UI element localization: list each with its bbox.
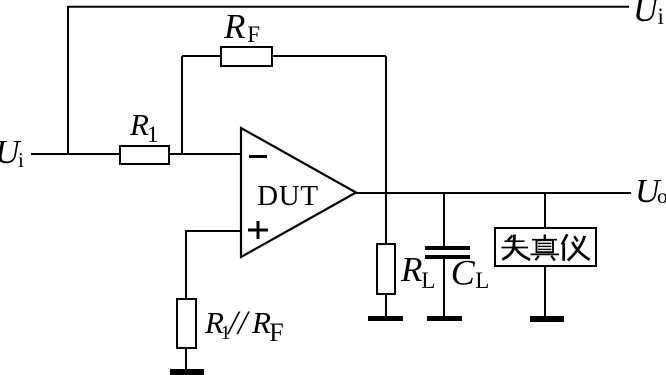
svg-text:C: C	[451, 253, 476, 293]
svg-text:R: R	[400, 250, 422, 289]
svg-text:1: 1	[147, 122, 159, 147]
svg-text:U: U	[633, 0, 660, 29]
svg-text:DUT: DUT	[257, 180, 319, 212]
svg-text:R: R	[223, 7, 245, 46]
svg-text:F: F	[247, 22, 260, 47]
svg-text:L: L	[475, 268, 489, 293]
svg-text:o: o	[657, 184, 666, 208]
svg-text:L: L	[421, 268, 435, 293]
svg-text:i: i	[18, 148, 24, 172]
svg-text:R: R	[251, 305, 271, 340]
svg-text://: //	[226, 305, 250, 342]
svg-text:i: i	[658, 4, 664, 29]
svg-text:R: R	[129, 107, 149, 142]
svg-text:F: F	[269, 318, 283, 347]
